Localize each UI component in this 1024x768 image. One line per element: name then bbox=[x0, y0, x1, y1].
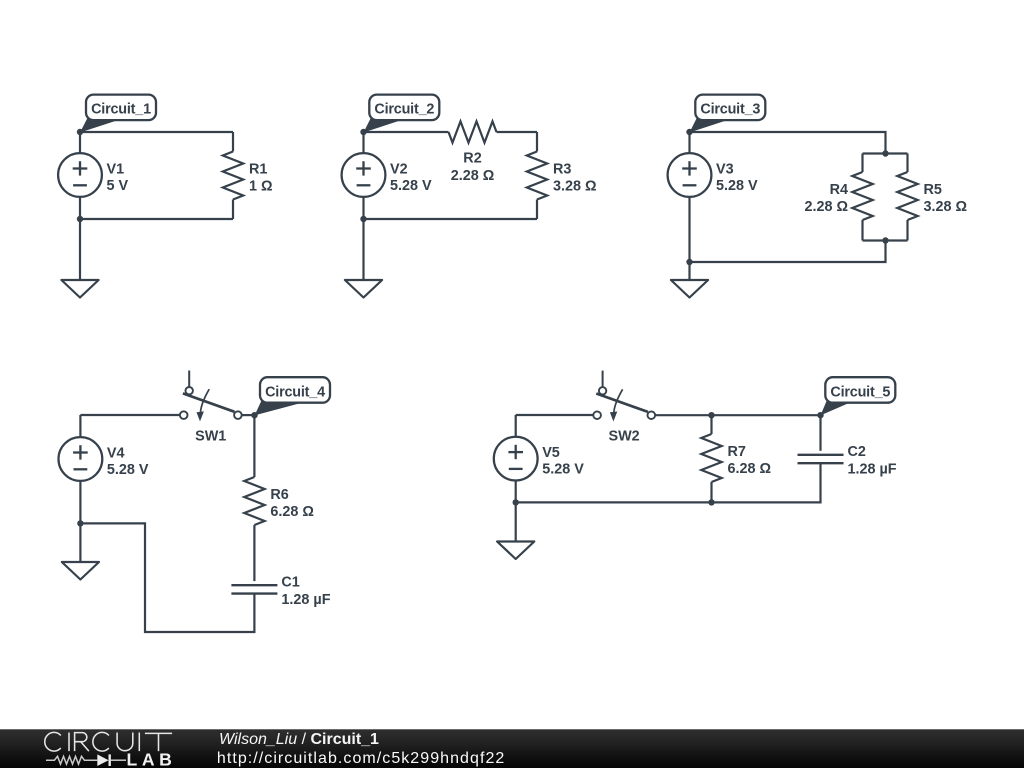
svg-text:6.28 Ω: 6.28 Ω bbox=[270, 504, 314, 520]
node dot circuit4 bottom-left junction bbox=[77, 520, 83, 526]
C2 value label "1.28 µF" bbox=[848, 444, 897, 478]
wire R5 top lead bbox=[906, 154, 908, 173]
svg-text:2.28 Ω: 2.28 Ω bbox=[451, 168, 495, 184]
svg-text:LAB: LAB bbox=[127, 749, 177, 768]
capacitor C1 bbox=[231, 585, 277, 593]
svg-text:Circuit_1: Circuit_1 bbox=[91, 102, 151, 118]
svg-text:Circuit_4: Circuit_4 bbox=[265, 384, 325, 400]
wire circuit5 ground stem bbox=[515, 502, 517, 541]
svg-text:6.28 Ω: 6.28 Ω bbox=[728, 461, 772, 477]
annotation flag box Circuit_4 bbox=[260, 377, 330, 403]
R6 value label "6.28 Ω" bbox=[270, 487, 314, 520]
R2 value label "2.28 Ω" bbox=[451, 151, 495, 185]
svg-text:V2: V2 bbox=[390, 162, 408, 178]
svg-text:R6: R6 bbox=[270, 487, 288, 503]
svg-text:V1: V1 bbox=[107, 162, 125, 178]
annotation flag tail for Circuit_2 bbox=[364, 119, 407, 133]
voltage source V4 bbox=[59, 437, 103, 481]
svg-text:C1: C1 bbox=[281, 574, 299, 590]
wire R6 to C1 lead bbox=[253, 525, 255, 581]
svg-text:3.28 Ω: 3.28 Ω bbox=[553, 179, 597, 195]
svg-text:C2: C2 bbox=[848, 444, 866, 460]
node dot circuit5 SW2-R7 junction bbox=[708, 412, 714, 418]
R3 value label "3.28 Ω" bbox=[553, 162, 597, 195]
wire circuit5 top rail V5 to SW2 bbox=[516, 414, 594, 416]
annotation flag box Circuit_5 bbox=[825, 377, 895, 403]
wire circuit4 V4 branch bbox=[79, 415, 81, 523]
annotation flag box Circuit_2 bbox=[369, 95, 439, 121]
switch SW2 pole stub wire bbox=[602, 371, 604, 387]
switch SW2 right terminal circle bbox=[648, 411, 656, 419]
wire circuit3 parallel bottom bar bbox=[863, 239, 908, 241]
node dot circuit5 bottom-left junction bbox=[513, 499, 519, 505]
svg-text:V4: V4 bbox=[107, 446, 125, 462]
svg-text:5.28 V: 5.28 V bbox=[107, 462, 149, 478]
resistor R1 bbox=[223, 152, 243, 200]
svg-text:2.28 Ω: 2.28 Ω bbox=[804, 199, 848, 215]
switch SW2 top terminal circle bbox=[599, 387, 606, 394]
svg-text:Circuit_3: Circuit_3 bbox=[700, 102, 760, 118]
voltage source V1 bbox=[58, 153, 102, 197]
annotation flag box Circuit_3 bbox=[695, 95, 765, 121]
wire SW1 right terminal to node bbox=[242, 414, 255, 416]
wire circuit1 ground stem bbox=[79, 219, 81, 280]
wire circuit1 V1 branch bbox=[79, 132, 81, 219]
svg-text:3.28 Ω: 3.28 Ω bbox=[924, 199, 968, 215]
R5 value label "3.28 Ω" bbox=[924, 182, 968, 215]
resistor R3 bbox=[527, 152, 547, 200]
node dot circuit4 SW1-R6 junction bbox=[251, 412, 257, 418]
switch SW1 actuation arrow bbox=[197, 389, 210, 421]
wire R3 top lead bbox=[536, 132, 538, 152]
wire circuit5 V5 branch bbox=[515, 415, 517, 502]
R4 value label "2.28 Ω" bbox=[804, 182, 848, 215]
resistor R7 bbox=[701, 434, 721, 482]
switch SW2 actuation arrow bbox=[610, 389, 623, 421]
svg-text:R4: R4 bbox=[830, 182, 848, 198]
capacitor C2 bbox=[798, 455, 844, 463]
svg-text:http://circuitlab.com/c5k299hn: http://circuitlab.com/c5k299hndqf22 bbox=[217, 750, 505, 767]
svg-text:R5: R5 bbox=[924, 182, 942, 198]
wire circuit2 bottom rail bbox=[364, 218, 538, 220]
node dot circuit3 parallel bottom junction bbox=[882, 237, 888, 243]
resistor R5 bbox=[897, 172, 917, 220]
CircuitLab logo resistor-diode symbol bbox=[46, 754, 126, 766]
wire SW2 right terminal to C2 top bbox=[655, 414, 820, 416]
switch SW1 left terminal circle bbox=[180, 411, 188, 419]
node dot circuit3 bottom-left junction bbox=[686, 259, 692, 265]
wire R6 top lead bbox=[253, 415, 255, 477]
switch SW1 pole stub wire bbox=[188, 371, 190, 387]
svg-text:Wilson_Liu / Circuit_1: Wilson_Liu / Circuit_1 bbox=[219, 731, 379, 748]
wire R3 bottom lead bbox=[536, 200, 538, 220]
svg-text:5.28 V: 5.28 V bbox=[716, 178, 758, 194]
wire circuit3 ground stem bbox=[688, 262, 690, 280]
wire C2 top lead bbox=[819, 415, 821, 451]
annotation flag box Circuit_1 bbox=[86, 95, 156, 121]
wire circuit2 V2 branch bbox=[362, 132, 364, 219]
svg-text:R7: R7 bbox=[728, 444, 746, 460]
annotation flag tail for Circuit_3 bbox=[690, 119, 733, 133]
V3 value label "5.28 V" bbox=[716, 162, 758, 194]
V2 value label "5.28 V" bbox=[390, 162, 432, 194]
wire R1 bottom lead bbox=[232, 200, 234, 220]
wire circuit3 bottom rail bbox=[690, 241, 886, 263]
svg-text:5.28 V: 5.28 V bbox=[390, 178, 432, 194]
wire circuit3 parallel top bar bbox=[863, 152, 908, 154]
ground (circuit 5) bbox=[497, 542, 534, 560]
R7 value label "6.28 Ω" bbox=[728, 444, 772, 477]
node dot circuit2 bottom-left junction bbox=[360, 216, 366, 222]
wire circuit5 bottom rail bbox=[516, 463, 821, 502]
svg-text:V5: V5 bbox=[542, 445, 560, 461]
switch SW2 left terminal circle bbox=[593, 411, 601, 419]
resistor R2 bbox=[449, 121, 497, 142]
wire R7 top lead bbox=[710, 415, 712, 434]
switch SW2 blade bbox=[596, 394, 648, 412]
wire circuit2 ground stem bbox=[362, 219, 364, 280]
C1 value label "1.28 µF" bbox=[281, 574, 330, 608]
ground (circuit 4) bbox=[62, 562, 99, 580]
node dot circuit5 R7 bottom junction bbox=[708, 499, 714, 505]
wire circuit3 V3 branch bbox=[688, 132, 690, 262]
svg-text:Circuit_2: Circuit_2 bbox=[374, 102, 434, 118]
wire circuit4 ground stem bbox=[79, 523, 81, 562]
wire R5 bottom lead bbox=[906, 220, 908, 241]
voltage source V5 bbox=[494, 437, 538, 481]
V5 value label "5.28 V" bbox=[542, 445, 584, 477]
wire circuit1 bottom rail bbox=[80, 218, 233, 220]
voltage source V3 bbox=[668, 153, 712, 197]
node dot circuit1 top-left junction bbox=[77, 129, 83, 135]
svg-text:5.28 V: 5.28 V bbox=[542, 461, 584, 477]
wire R4 top lead bbox=[861, 154, 863, 173]
wire circuit4 top rail V4 to SW1 bbox=[80, 414, 179, 416]
annotation flag tail for Circuit_1 bbox=[80, 119, 123, 133]
wire R4 bottom lead bbox=[861, 220, 863, 241]
node dot circuit5 C2 top junction bbox=[817, 412, 823, 418]
node dot circuit1 bottom-left junction bbox=[77, 216, 83, 222]
svg-text:SW2: SW2 bbox=[609, 429, 640, 445]
svg-text:V3: V3 bbox=[716, 162, 734, 178]
wire R7 bottom lead bbox=[710, 482, 712, 502]
svg-text:R3: R3 bbox=[553, 162, 571, 178]
svg-text:R2: R2 bbox=[463, 151, 481, 167]
annotation flag tail for Circuit_5 bbox=[821, 401, 854, 415]
svg-text:1.28 µF: 1.28 µF bbox=[848, 462, 897, 478]
svg-text:R1: R1 bbox=[249, 162, 267, 178]
node dot circuit3 parallel top junction bbox=[882, 150, 888, 156]
svg-text:5 V: 5 V bbox=[107, 178, 129, 194]
node dot circuit2 top-left junction bbox=[360, 129, 366, 135]
svg-text:1.28 µF: 1.28 µF bbox=[281, 592, 330, 608]
V1 value label "5 V" bbox=[107, 162, 129, 194]
ground (circuit 1) bbox=[61, 280, 98, 298]
R1 value label "1 Ω" bbox=[249, 162, 273, 195]
switch SW1 blade bbox=[183, 393, 235, 411]
wire circuit1 top rail bbox=[80, 131, 233, 133]
resistor R6 bbox=[244, 477, 264, 525]
ground (circuit 3) bbox=[671, 280, 708, 298]
svg-text:Circuit_5: Circuit_5 bbox=[830, 384, 890, 400]
annotation flag tail for Circuit_4 bbox=[255, 401, 308, 415]
resistor R4 bbox=[852, 172, 872, 220]
wire circuit2 top rail right of R2 bbox=[497, 131, 538, 133]
svg-text:SW1: SW1 bbox=[195, 429, 226, 445]
svg-text:1 Ω: 1 Ω bbox=[249, 179, 273, 195]
node dot circuit3 top-left junction bbox=[686, 129, 692, 135]
wire circuit3 top rail bbox=[690, 132, 886, 154]
CircuitLab logo "CIRCUIT" wordmark bbox=[45, 732, 172, 751]
voltage source V2 bbox=[342, 153, 386, 197]
V4 value label "5.28 V" bbox=[107, 446, 149, 478]
wire R1 top lead bbox=[232, 132, 234, 152]
ground (circuit 2) bbox=[345, 280, 382, 298]
wire circuit4 return path C1 to V4 bbox=[80, 523, 254, 632]
wire circuit2 top rail left of R2 bbox=[364, 131, 449, 133]
switch SW1 top terminal circle bbox=[186, 387, 193, 394]
switch SW1 right terminal circle bbox=[234, 411, 242, 419]
